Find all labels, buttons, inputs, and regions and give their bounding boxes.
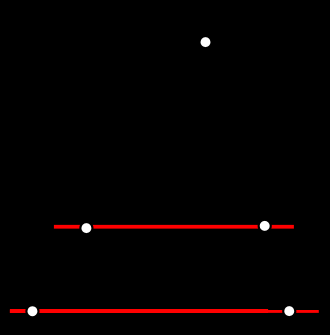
node middle right glider [259, 220, 271, 232]
wire bottom thick highlight [10, 309, 268, 313]
node bottom right glider [283, 305, 295, 317]
node bottom left glider [26, 305, 38, 317]
node top point [199, 36, 211, 48]
wire bottom thin track [10, 310, 319, 313]
node middle left glider [80, 222, 92, 234]
wire middle segment [54, 225, 294, 229]
